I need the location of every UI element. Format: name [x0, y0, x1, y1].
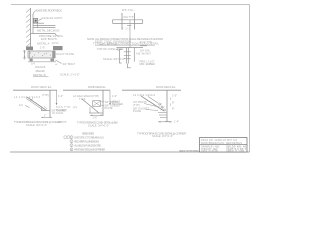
svg-text:SCALE: 3/4"=1'-0": SCALE: 3/4"=1'-0" — [152, 134, 173, 138]
detail B left foot — [30, 59, 33, 62]
svg-text:BEYOND: BEYOND — [112, 102, 123, 106]
detail E caption line 1 — [14, 120, 62, 124]
detail G roof line — [122, 89, 181, 91]
title block row 2 — [201, 142, 242, 145]
detail G right dim text 3 — [172, 106, 174, 110]
detail G caption line 1 — [137, 131, 186, 135]
detail B bottom line — [28, 61, 56, 63]
detail C below text — [122, 28, 131, 31]
detail D pier edge right — [133, 48, 135, 62]
svg-text:1'-0": 1'-0" — [58, 94, 63, 98]
svg-text:1/4: 1/4 — [19, 103, 23, 107]
svg-text:1/2"=1': 1/2"=1' — [52, 42, 60, 45]
detail A clip label — [42, 16, 63, 20]
svg-text:8x8 TYP: 8x8 TYP — [124, 16, 134, 19]
svg-text:EXP. BOLTS: EXP. BOLTS — [41, 37, 57, 41]
svg-text:1'-0": 1'-0" — [40, 46, 45, 50]
detail G leader 3 — [146, 110, 158, 111]
detail C scale note — [103, 57, 125, 61]
detail F bottom tick — [89, 107, 91, 113]
detail E weld symbol — [19, 103, 30, 108]
detail B strip right end fill — [52, 51, 55, 58]
detail B scale note — [60, 73, 80, 77]
title block right col rows — [228, 145, 247, 153]
svg-text:1'-0": 1'-0" — [112, 94, 117, 98]
detail G column line — [166, 90, 168, 122]
svg-text:1'-4": 1'-4" — [174, 121, 179, 124]
svg-text:ALL WELDS 1/4" UNLESS NOTED: ALL WELDS 1/4" UNLESS NOTED — [74, 144, 101, 147]
detail F right label upper — [105, 100, 119, 104]
detail G right dim text 2 — [172, 100, 174, 104]
sheet border top — [11, 4, 250, 6]
detail D left leader — [116, 49, 119, 51]
legend symbol 1 — [70, 136, 73, 140]
detail B right leader upper — [56, 53, 60, 55]
detail G label 1 — [133, 93, 156, 97]
svg-text:A.B. W/ NUT: A.B. W/ NUT — [136, 51, 151, 55]
svg-text:SCALE: 1"=1'-0": SCALE: 1"=1'-0" — [60, 73, 80, 77]
title block divider — [200, 144, 248, 146]
svg-text:L2 1/2x2 1/2x1/4 (TYP): L2 1/2x2 1/2x1/4 (TYP) — [73, 94, 99, 98]
detail F dim marks — [90, 115, 103, 120]
svg-text:PLATE: PLATE — [105, 106, 113, 110]
detail F label leaders — [101, 102, 104, 105]
legend symbol 4 — [70, 148, 73, 152]
detail G brace diagonal — [141, 96, 164, 111]
svg-text:DETAIL A: DETAIL A — [37, 41, 49, 45]
detail A deck line 2 — [33, 27, 56, 29]
detail F top label — [88, 85, 106, 89]
detail F bottom line — [89, 112, 103, 114]
svg-text:W12x26: W12x26 — [35, 65, 46, 69]
svg-text:FIELD VERIFY ALL DIMENSIONS: FIELD VERIFY ALL DIMENSIONS — [74, 140, 99, 143]
legend row 1 text — [74, 136, 104, 139]
detail F roof line — [63, 89, 110, 91]
detail C bolt tick — [127, 25, 131, 27]
detail G connection marks — [158, 113, 169, 122]
detail D pier edge left — [120, 50, 122, 64]
detail A web tick — [37, 23, 39, 27]
svg-text:2": 2" — [44, 115, 46, 118]
detail F dim line — [109, 90, 111, 105]
detail G caption line 2 — [152, 134, 173, 138]
svg-text:(TYP): (TYP) — [42, 93, 49, 97]
legend symbol 2 — [70, 140, 73, 144]
detail E caption line 2 — [26, 123, 47, 127]
svg-text:PLATE: PLATE — [133, 109, 141, 113]
svg-text:PL 10x10: PL 10x10 — [53, 112, 64, 115]
detail B sub text — [36, 69, 46, 73]
detail G label 3 — [133, 107, 149, 114]
detail B beam text — [35, 65, 46, 69]
detail B right label upper — [60, 52, 74, 56]
detail E typ label — [42, 93, 49, 97]
detail A title — [37, 41, 59, 45]
svg-text:+/-: +/- — [55, 62, 58, 66]
detail C column line left — [121, 13, 123, 30]
detail D right label mid — [136, 48, 151, 55]
svg-text:8": 8" — [172, 106, 174, 110]
svg-text:DATE: 01/01/98: DATE: 01/01/98 — [201, 150, 219, 153]
svg-text:1/4 TYP.: 1/4 TYP. — [57, 120, 67, 124]
svg-text:SCALE: 3/4"=1'-0": SCALE: 3/4"=1'-0" — [103, 57, 125, 61]
detail B top dim text — [40, 46, 45, 50]
detail F column line — [102, 90, 104, 116]
detail D right arrow — [140, 45, 147, 47]
detail D right label upper — [140, 40, 152, 44]
svg-text:EXIST. MTL ROOF DECK: EXIST. MTL ROOF DECK — [36, 9, 62, 13]
detail B small marks — [31, 62, 58, 66]
detail C center line — [129, 20, 131, 48]
detail B strip left edge — [28, 51, 30, 58]
detail D pier top line — [117, 47, 144, 49]
detail A clip angle box — [34, 19, 38, 23]
detail E brace diagonal — [26, 97, 47, 111]
legend symbol row1 extras — [64, 136, 70, 139]
svg-text:ROOF DECK EL.: ROOF DECK EL. — [88, 85, 106, 89]
svg-text:REV. 0 1/98: REV. 0 1/98 — [228, 150, 245, 153]
plot stamp — [179, 149, 199, 153]
detail G label 2 — [133, 100, 147, 107]
detail G right dim ticks — [170, 98, 172, 107]
detail G dim text — [174, 121, 179, 124]
detail C inner dim text — [124, 16, 134, 19]
detail E dim line — [56, 90, 58, 105]
detail B right label lower — [63, 62, 76, 66]
svg-text:PAINT NEW STEEL W/ SHOP PRIMER: PAINT NEW STEEL W/ SHOP PRIMER — [74, 149, 105, 152]
detail A top label — [36, 9, 62, 13]
svg-text:3/4" BOLT: 3/4" BOLT — [63, 62, 76, 66]
svg-text:ROOF DECK EL.: ROOF DECK EL. — [31, 85, 52, 89]
title block row 1 — [201, 139, 238, 142]
legend row 2 text — [74, 140, 99, 143]
svg-text:EXIST. STRUCT. TO REMAIN U.N.O: EXIST. STRUCT. TO REMAIN U.N.O. — [74, 136, 104, 139]
detail E gusset label — [52, 110, 68, 116]
detail B left top block — [26, 47, 33, 51]
detail A bottom line — [31, 33, 56, 35]
detail A lower note line 1 — [39, 34, 63, 38]
detail A beam top line — [33, 22, 44, 24]
svg-text:L3x3x1/4 CONT.: L3x3x1/4 CONT. — [42, 16, 63, 20]
detail G dim marks — [158, 121, 172, 123]
detail F left label — [56, 105, 77, 112]
detail E top label — [31, 85, 52, 89]
detail A wall line inner — [32, 14, 34, 34]
svg-text:1'-0": 1'-0" — [172, 93, 177, 97]
detail E column line — [49, 90, 51, 117]
detail G bolt circles — [158, 103, 166, 111]
svg-text:1/4" PLATE: 1/4" PLATE — [60, 52, 74, 56]
detail A note leader — [55, 34, 58, 37]
svg-text:METAL DECKING: METAL DECKING — [37, 28, 60, 32]
legend symbol 3 — [70, 144, 73, 148]
detail G leader 1 — [148, 97, 158, 104]
sheet border right — [249, 5, 251, 153]
title block frame — [200, 138, 248, 153]
detail A lower note line 2 — [41, 37, 57, 41]
detail C label above — [122, 8, 135, 12]
title block column divider — [226, 145, 228, 152]
detail D right label lower — [140, 59, 156, 66]
detail G leader 2 — [144, 104, 157, 107]
detail A top leader — [33, 11, 36, 16]
detail D bolt hook — [127, 64, 131, 68]
legend title — [82, 132, 94, 136]
svg-text:8": 8" — [172, 100, 174, 104]
detail C beam flange line — [113, 20, 143, 24]
detail F right label lower — [105, 104, 121, 111]
svg-text:1'-6": 1'-6" — [93, 116, 98, 119]
svg-text:SCALE: 3/4"=1'-0": SCALE: 3/4"=1'-0" — [26, 123, 47, 127]
detail E dim text — [58, 94, 63, 98]
sheet border bottom — [10, 151, 250, 153]
svg-text:4"x4" TYP: 4"x4" TYP — [140, 40, 152, 44]
title block left col rows — [201, 145, 220, 153]
detail B right top block — [53, 46, 63, 50]
detail A deck line 1 — [33, 25, 56, 27]
detail F stray note — [57, 120, 67, 124]
detail B deck strip — [28, 51, 55, 58]
detail C column line right — [134, 13, 136, 30]
detail D left label upper — [95, 40, 131, 47]
legend row 3 text — [74, 144, 101, 147]
detail A wall hatch — [26, 9, 30, 47]
detail G right dim text 1 — [172, 93, 177, 97]
detail G far-left label — [112, 99, 123, 106]
detail A wall line outer — [30, 8, 32, 47]
svg-text:TOP OF CONC. PIER: TOP OF CONC. PIER — [97, 47, 123, 51]
detail B left dim line — [23, 50, 26, 60]
detail D anchor bolt shank — [127, 48, 129, 64]
detail C beam lower line — [113, 22, 143, 24]
svg-text:(TYP): (TYP) — [133, 103, 140, 107]
detail F splice box — [93, 101, 101, 107]
detail F dim text — [112, 94, 117, 98]
detail A clip leader — [39, 19, 43, 21]
svg-text:PLACES: PLACES — [56, 108, 66, 112]
detail G top label — [156, 85, 176, 89]
svg-text:WALL BEYOND: WALL BEYOND — [99, 42, 118, 46]
detail F small dim — [79, 98, 86, 101]
detail E roof line — [13, 89, 57, 91]
svg-text:L2 1/2x2 1/2x1/4: L2 1/2x2 1/2x1/4 — [133, 93, 156, 97]
detail E label leader — [30, 99, 33, 101]
detail A mid label — [37, 28, 60, 32]
detail E angle label — [14, 95, 41, 99]
detail E gusset line — [41, 110, 50, 112]
detail D left label lower — [97, 47, 123, 51]
detail E dim marks — [41, 115, 52, 118]
detail F angle label — [73, 94, 99, 98]
detail D nut tick rows — [124, 52, 131, 59]
detail E gusset tick — [41, 107, 43, 111]
svg-text:ROOF DECK EL.: ROOF DECK EL. — [156, 85, 176, 89]
detail C title row — [93, 41, 159, 45]
svg-text:KEYED NOTES: KEYED NOTES — [82, 132, 94, 136]
legend row 4 text — [74, 149, 105, 152]
svg-text:SCALE: 3/4"=1'-0": SCALE: 3/4"=1'-0" — [88, 124, 109, 128]
detail B title — [33, 73, 49, 77]
svg-text:5 1/2: 5 1/2 — [122, 28, 131, 31]
detail B right leader lower — [56, 60, 62, 64]
svg-text:MIN. EMBED: MIN. EMBED — [140, 62, 156, 66]
svg-text:W8 COL.: W8 COL. — [122, 8, 135, 12]
detail F caption line 2 — [88, 124, 109, 128]
svg-text:DETAIL B: DETAIL B — [33, 73, 46, 77]
detail E angle mark — [44, 107, 47, 110]
detail C note row — [87, 37, 163, 41]
detail F caption line 1 — [77, 121, 118, 125]
detail F brace diagonal — [82, 99, 99, 113]
detail B right foot — [51, 59, 55, 62]
svg-text:XREF 123-S5.DWG: XREF 123-S5.DWG — [179, 149, 199, 153]
